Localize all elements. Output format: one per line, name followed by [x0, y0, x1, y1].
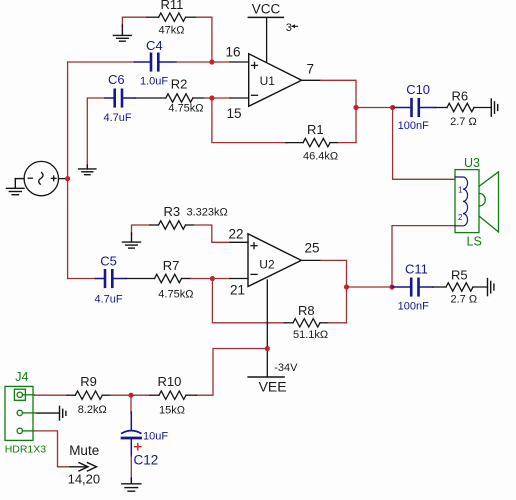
ground below C12: [122, 478, 141, 491]
svg-text:C11: C11: [405, 262, 428, 277]
svg-text:2.7 Ω: 2.7 Ω: [450, 116, 477, 128]
wire C4 row left: [68, 61, 135, 63]
wire R3 left to ground: [132, 225, 151, 234]
ground at R6 right: [491, 99, 497, 116]
svg-text:R5: R5: [451, 268, 468, 283]
wire R9 to C12 node: [110, 394, 131, 396]
svg-text:4.7uF: 4.7uF: [104, 112, 132, 124]
op-amp U2: [248, 234, 301, 287]
resistor R2: [135, 77, 204, 115]
wire R11 ground to R11 left: [122, 17, 147, 26]
svg-text:4.7uF: 4.7uF: [95, 294, 123, 306]
svg-text:R7: R7: [163, 258, 180, 273]
ground at R11 left: [113, 25, 131, 41]
node VEE junction: [265, 346, 270, 351]
svg-text:4.75kΩ: 4.75kΩ: [158, 289, 193, 301]
svg-text:4.75kΩ: 4.75kΩ: [168, 103, 203, 115]
svg-text:2: 2: [458, 213, 463, 222]
svg-text:R9: R9: [80, 374, 97, 389]
wire R10 to VEE: [197, 349, 268, 396]
source V1: [24, 161, 68, 195]
node C4-R11 junction: [209, 59, 214, 64]
capacitor C6: [104, 72, 136, 124]
ground at source left: [7, 179, 25, 195]
svg-text:1.0uF: 1.0uF: [140, 76, 168, 88]
capacitor C10: [393, 82, 436, 132]
svg-text:C6: C6: [108, 72, 125, 87]
svg-text:U3: U3: [464, 156, 480, 170]
node U2 output junction: [344, 284, 349, 289]
svg-text:15: 15: [226, 106, 241, 121]
wire C12 bottom to ground: [130, 456, 132, 479]
svg-text:U1: U1: [260, 74, 276, 88]
connector J4: [5, 386, 35, 440]
resistor R9: [67, 374, 110, 416]
ground at J4 pin2: [36, 406, 66, 420]
wire R7 to U2 minus node: [191, 278, 212, 280]
svg-text:3.323kΩ: 3.323kΩ: [187, 207, 228, 219]
wire C6 ground branch: [87, 98, 105, 166]
svg-text:14,20: 14,20: [68, 472, 101, 487]
svg-text:46.4kΩ: 46.4kΩ: [303, 151, 338, 163]
node output junction: [353, 105, 358, 110]
wire U1 minus stub: [212, 97, 230, 99]
svg-text:21: 21: [230, 283, 245, 298]
resistor R6: [435, 89, 491, 128]
node R7 junction: [210, 276, 215, 281]
svg-text:51.1kΩ: 51.1kΩ: [293, 329, 328, 341]
svg-text:C4: C4: [146, 38, 163, 53]
svg-text:100nF: 100nF: [398, 301, 429, 313]
wire R8 right to output vertical: [329, 322, 347, 324]
wire C5 row left: [68, 278, 96, 280]
svg-text:15kΩ: 15kΩ: [159, 404, 185, 416]
VCC power symbol: [248, 2, 283, 63]
svg-text:R6: R6: [452, 89, 469, 104]
svg-text:C5: C5: [100, 254, 117, 269]
wire C12 top lead: [130, 395, 132, 413]
capacitor C12: [122, 412, 169, 468]
speaker U3: [455, 156, 499, 249]
node C11 junction: [389, 284, 394, 289]
capacitor C11: [392, 262, 433, 313]
wire input vertical: [67, 62, 69, 279]
off-page connector mute arrows: [70, 463, 97, 471]
svg-text:J4: J4: [15, 370, 28, 384]
svg-text:R8: R8: [298, 303, 315, 318]
VEE power symbol: [248, 280, 298, 395]
resistor R5: [433, 268, 488, 306]
capacitor C5: [95, 254, 127, 306]
svg-text:VEE: VEE: [259, 379, 287, 395]
resistor R7: [126, 258, 193, 301]
resistor R11: [147, 0, 197, 37]
svg-text:C12: C12: [134, 453, 159, 468]
node R2 junction: [209, 95, 214, 100]
wire C4 to U1 plus node: [176, 61, 212, 63]
svg-text:R2: R2: [171, 77, 188, 92]
capacitor C4: [135, 38, 177, 88]
wire output to C10 node: [356, 107, 393, 109]
wire J4 pin3 mute: [35, 431, 71, 467]
wire U1 output: [302, 79, 321, 81]
wire R11 right down to C4 node: [197, 17, 212, 62]
wire U1 plus stub: [212, 61, 230, 63]
node R9-R10 junction: [128, 393, 133, 398]
resistor R3: [150, 204, 228, 229]
svg-text:HDR1X3: HDR1X3: [5, 443, 47, 455]
svg-text:47kΩ: 47kΩ: [159, 25, 185, 37]
wire R2 to U1 minus node: [204, 97, 212, 99]
resistor R10: [150, 374, 197, 416]
pin 3 label with arrow: [286, 22, 298, 34]
svg-text:R11: R11: [161, 0, 184, 12]
svg-text:VCC: VCC: [252, 2, 281, 17]
wire R2 node down to R1: [212, 98, 287, 143]
wire R3 to U2 plus: [194, 225, 230, 242]
wire output to C11 node: [347, 286, 393, 288]
wire U2 minus stub: [212, 278, 230, 280]
svg-text:7: 7: [307, 62, 315, 77]
ground at R3 left: [123, 233, 141, 248]
svg-text:2.7 Ω: 2.7 Ω: [451, 294, 478, 306]
svg-text:16: 16: [225, 45, 240, 60]
wire R7 node down to R8: [212, 279, 284, 323]
svg-text:22: 22: [228, 227, 243, 242]
svg-text:U2: U2: [259, 258, 275, 272]
svg-text:10uF: 10uF: [143, 430, 168, 442]
svg-text:R10: R10: [158, 374, 182, 389]
ground below C6: [79, 165, 96, 175]
svg-text:C10: C10: [406, 82, 430, 97]
ground at R5 right: [488, 279, 494, 296]
svg-text:R1: R1: [307, 122, 324, 137]
wire R1 right to output vertical: [338, 142, 356, 144]
wire to speaker bottom: [392, 226, 455, 287]
resistor R1: [286, 122, 338, 163]
svg-text:100nF: 100nF: [398, 120, 429, 132]
wire J4 pin1 to R9: [35, 394, 68, 396]
svg-text:3: 3: [286, 22, 292, 34]
wire U2 output: [301, 259, 320, 261]
svg-text:Mute: Mute: [69, 443, 99, 458]
node C10 junction: [390, 105, 395, 110]
svg-text:LS: LS: [467, 235, 482, 249]
svg-text:25: 25: [305, 241, 320, 256]
resistor R8: [285, 303, 329, 341]
node source junction: [65, 176, 70, 181]
svg-text:1: 1: [458, 186, 463, 195]
op-amp U1: [249, 54, 302, 107]
wire to speaker top: [393, 108, 455, 180]
svg-text:8.2kΩ: 8.2kΩ: [78, 404, 107, 416]
wire node to R10: [131, 394, 150, 396]
svg-text:-34V: -34V: [274, 362, 298, 374]
svg-text:R3: R3: [164, 204, 181, 219]
